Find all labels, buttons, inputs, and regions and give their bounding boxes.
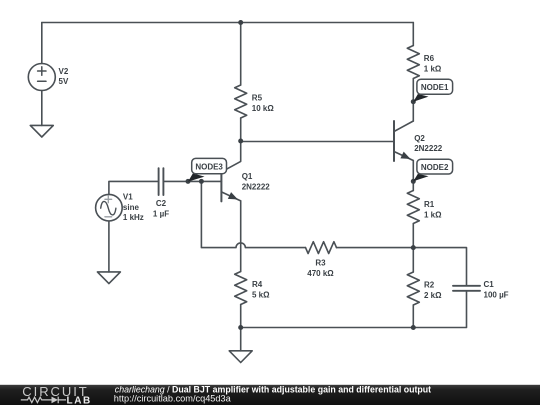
capacitor C2 [158,168,160,195]
svg-text:1 kΩ: 1 kΩ [424,210,442,219]
wire R2 bottom to rail [412,305,414,328]
svg-text:NODE3: NODE3 [195,162,223,171]
wire R6 to Q2 collector [412,79,414,122]
node label NODE3 pointer [188,173,205,181]
node label NODE1 [417,79,453,94]
junction R5 / Q2 base / Q1 collector [238,139,243,144]
node label NODE3 [192,158,227,173]
node label NODE2 pointer [413,174,428,182]
resistor R3 [306,242,337,254]
junction top rail / R5 [238,20,243,25]
wire R4 bottom to rail [240,305,242,328]
svg-text:Q1: Q1 [242,172,253,181]
svg-text:100 µF: 100 µF [484,290,509,299]
svg-text:10 kΩ: 10 kΩ [252,104,275,113]
wire R5 column from rail [240,23,242,86]
transistor Q1 emitter arrowhead [229,193,237,199]
ground below R4 [229,351,252,363]
svg-text:R2: R2 [424,281,435,290]
wire R6 top lead [412,23,414,46]
wire R5 node to Q2 base [241,141,394,143]
svg-text:sine: sine [123,203,140,212]
svg-text:R1: R1 [424,200,435,209]
svg-text:NODE2: NODE2 [421,163,449,172]
junction R4 / bottom rail / ground [238,325,243,330]
svg-text:2N2222: 2N2222 [242,182,271,191]
resistor R5 [235,85,247,118]
node NODE1 attachment dot [411,99,416,104]
svg-text:5 kΩ: 5 kΩ [252,290,270,299]
svg-text:470 kΩ: 470 kΩ [307,269,334,278]
svg-text:http://circuitlab.com/cq45d3a: http://circuitlab.com/cq45d3a [114,394,232,404]
wire node3 branch down and R3 row with hop [201,181,305,247]
wire top rail V2 to R6 [42,22,414,24]
wire C2 to Q1 base [164,180,221,182]
svg-text:V2: V2 [59,67,69,76]
svg-text:R6: R6 [424,54,435,63]
wire V1 bottom lead [108,221,110,272]
svg-text:C1: C1 [484,280,495,289]
voltage source V2 [28,64,55,91]
footer logo resistor-diode [21,397,66,404]
svg-text:5V: 5V [59,77,69,86]
node NODE2 attachment dot [411,179,416,184]
junction C2 wire / R3 branch [199,179,204,184]
transistor Q1 [220,161,222,201]
svg-text:Q2: Q2 [414,134,425,143]
junction R1 / R3 / R2 / C1 [411,245,416,250]
junction R2 / bottom rail [411,325,416,330]
wire ground stem [240,328,242,351]
transistor Q2 [393,121,395,161]
svg-text:C2: C2 [156,199,167,208]
resistor R4 [235,272,247,305]
svg-text:NODE1: NODE1 [421,83,449,92]
wire R5 bottom to node [240,118,242,141]
capacitor C1 [453,285,480,287]
wire R1 bottom to node [412,224,414,248]
svg-text:1 µF: 1 µF [153,209,169,218]
ground below V2 [30,125,53,137]
svg-text:1 kHz: 1 kHz [123,213,144,222]
resistor R2 [407,272,419,305]
wire node to C1 top [413,248,466,286]
node label NODE2 [417,159,453,174]
voltage source V1 [96,194,123,221]
svg-text:2N2222: 2N2222 [414,144,443,153]
svg-text:R3: R3 [315,258,326,267]
svg-text:1 kΩ: 1 kΩ [424,64,442,73]
ground below V1 [97,272,120,284]
svg-text:R5: R5 [252,94,263,103]
svg-text:LAB: LAB [67,395,92,405]
wire Q2 emitter to R1 [412,161,414,191]
svg-text:2 kΩ: 2 kΩ [424,291,442,300]
wire V2 top lead [41,23,43,64]
resistor R6 [407,46,419,79]
wire R3 to R1/R2 node [337,247,414,249]
node label NODE1 pointer [413,94,428,102]
svg-text:V1: V1 [123,193,133,202]
wire V1 top to C2 [109,181,158,194]
wire R2 top lead [412,248,414,272]
footer bar [0,385,540,405]
wire Q1 emitter down to R4 [240,201,242,272]
svg-text:R4: R4 [252,280,263,289]
transistor Q2 emitter arrowhead [401,153,409,159]
node NODE3 attachment dot [186,179,191,184]
wire C1 bottom and bottom rail [241,292,467,328]
wire V2 bottom lead [41,91,43,126]
resistor R1 [407,191,419,224]
